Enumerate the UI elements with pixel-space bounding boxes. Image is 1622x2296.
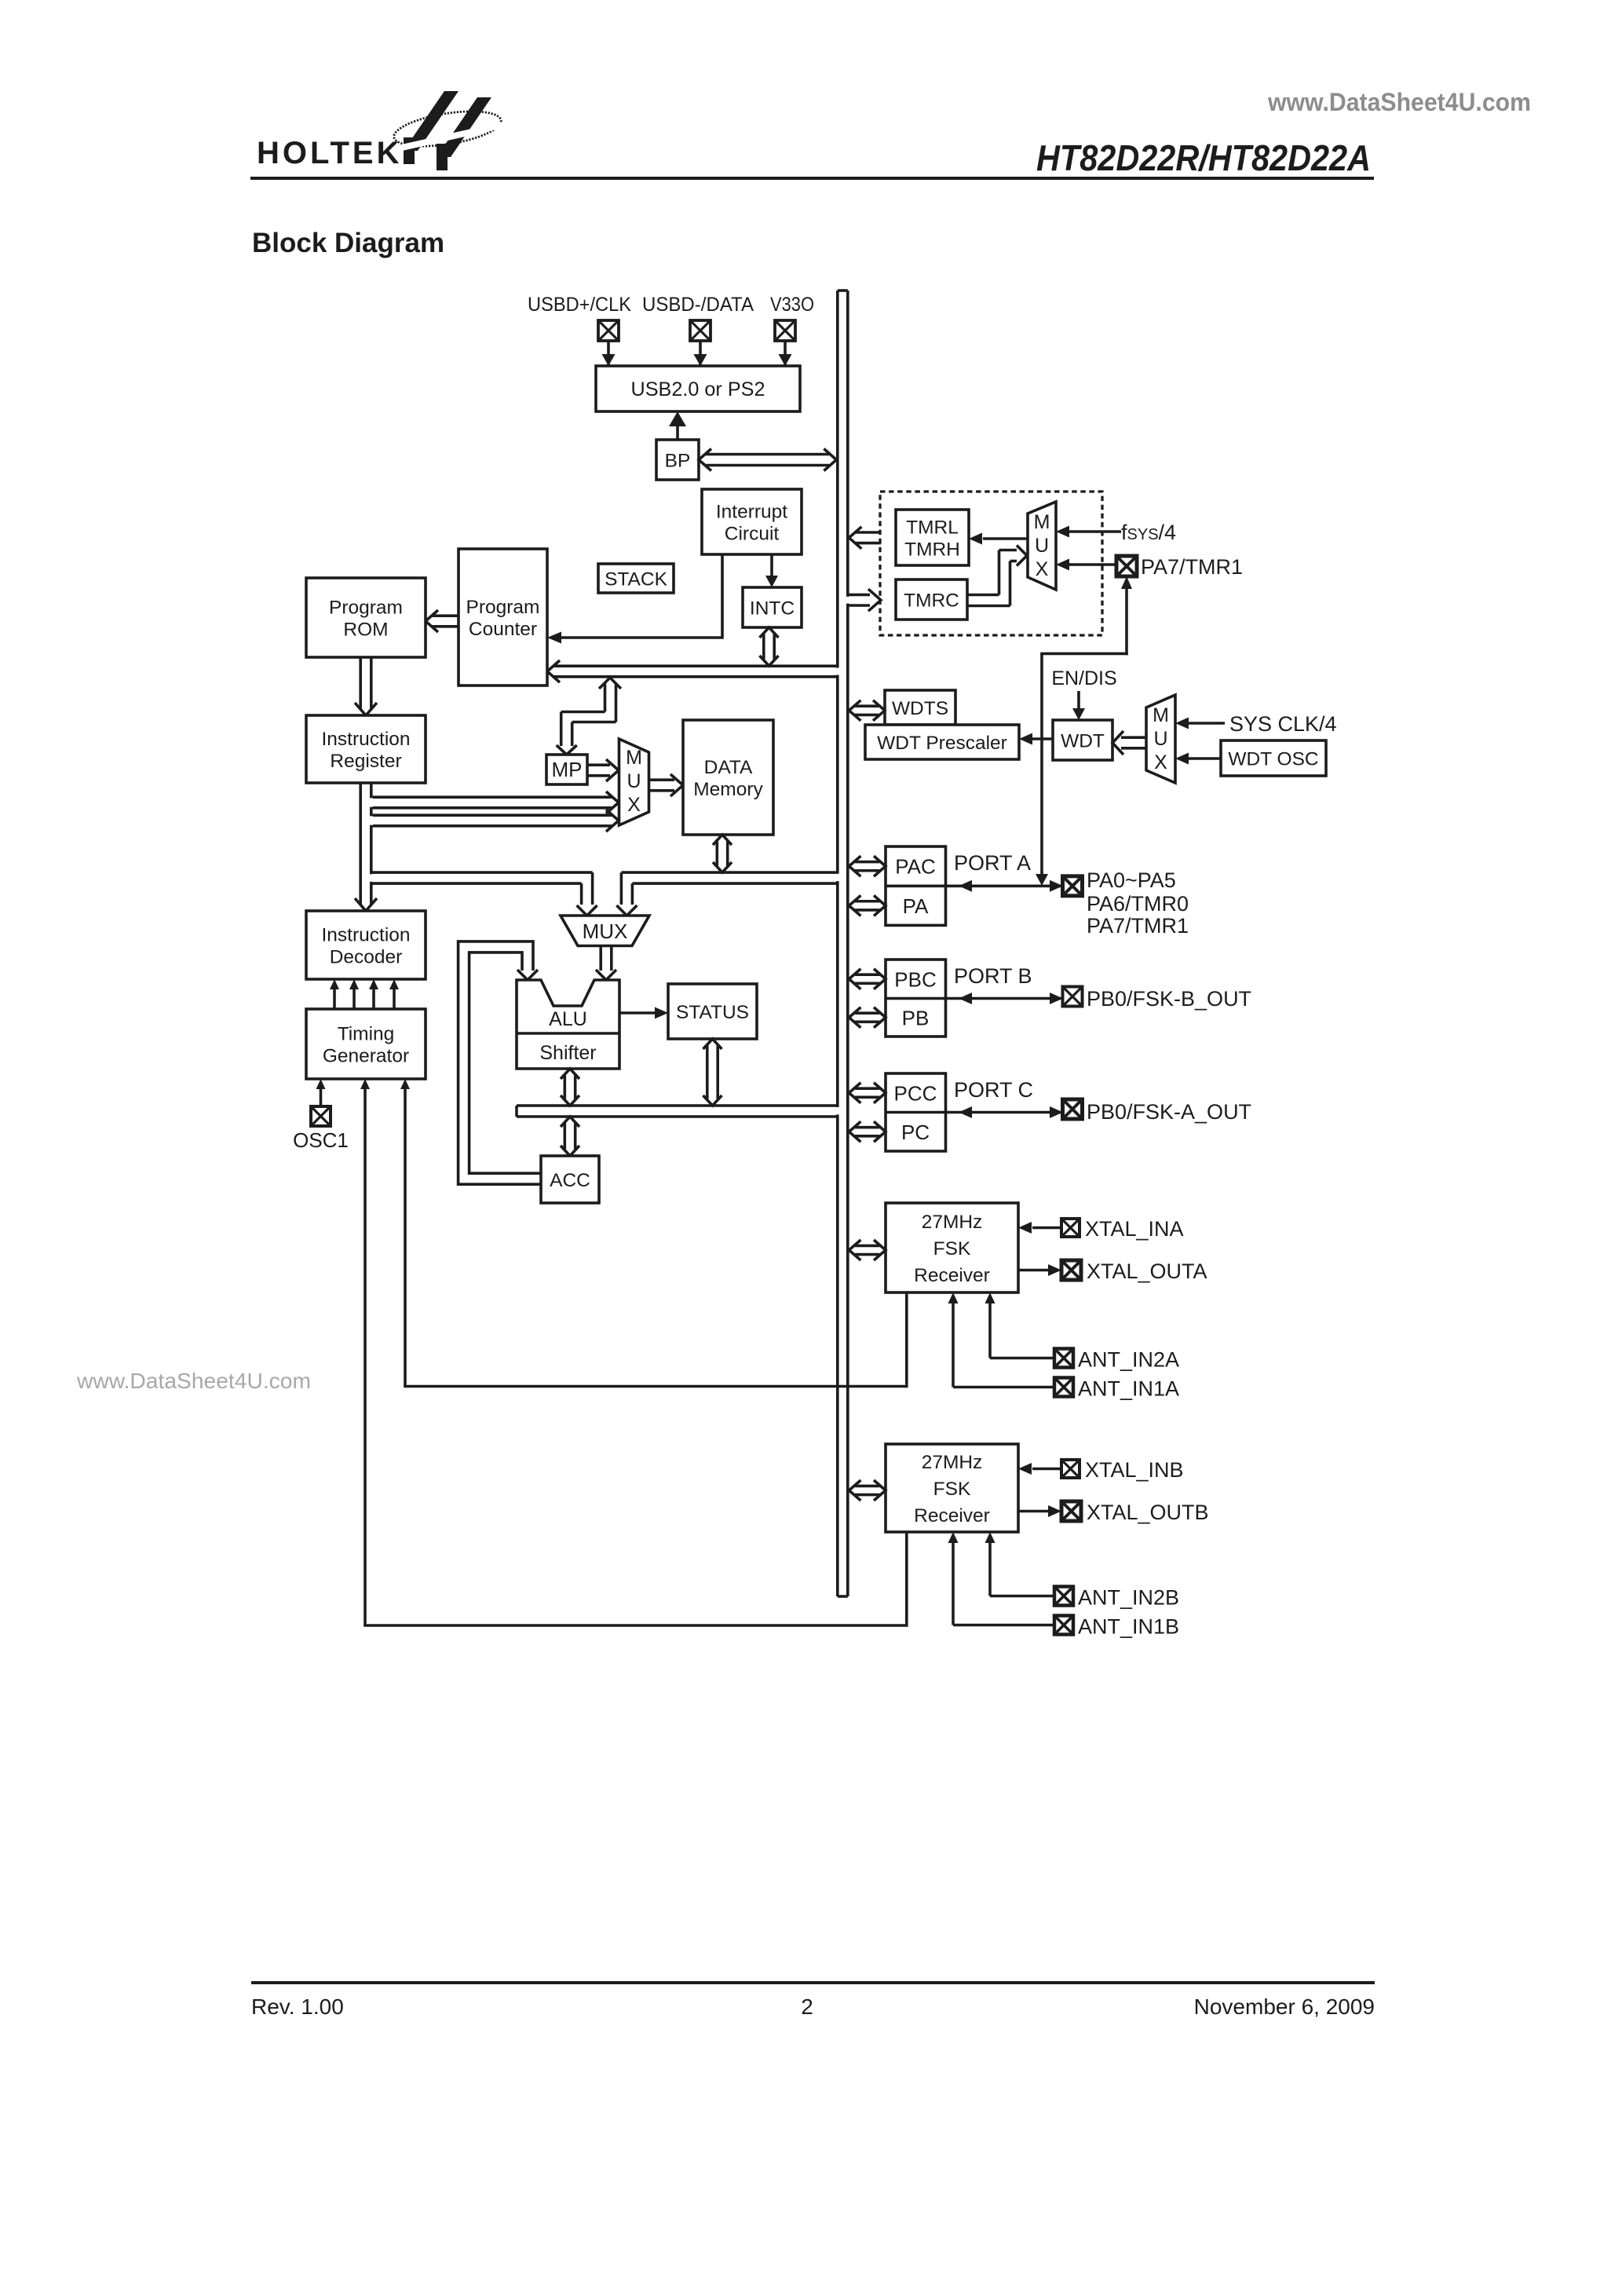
svg-text:WDT: WDT [1061,730,1105,751]
svg-text:XTAL_INB: XTAL_INB [1085,1458,1184,1482]
wire FSK-B to Timing Generator [363,1088,367,1625]
svg-text:WDT OSC: WDT OSC [1228,748,1318,770]
svg-text:U: U [1035,535,1049,557]
svg-text:PB0/FSK-B_OUT: PB0/FSK-B_OUT [1087,987,1251,1011]
gap IR shaft c [370,874,373,882]
arrow Data Memory to RAM path [713,835,732,845]
arrow into Instruction Decoder [355,898,377,911]
svg-text:PORT C: PORT C [954,1078,1033,1102]
svg-text:XTAL_OUTA: XTAL_OUTA [1087,1260,1207,1283]
svg-text:USBD-/DATA: USBD-/DATA [642,294,754,316]
svg-text:STATUS: STATUS [676,1002,749,1023]
svg-text:November 6, 2009: November 6, 2009 [1194,1994,1375,2019]
block STACK [598,564,674,593]
svg-text:M: M [1034,511,1050,533]
wire Interrupt Circuit to INTC [770,554,773,581]
pin XTAL_OUTB [1061,1501,1081,1521]
wire WDT OSC to MUX4 [1188,757,1221,760]
wire ANT_IN2B to 27MHz FSK Receiver B [990,1595,1054,1598]
arrow data bar to ACC [561,1117,579,1127]
block BP [656,440,699,480]
arrow Program Counter to Program ROM [431,614,458,617]
svg-text:DATA: DATA [704,757,753,778]
svg-text:MP: MP [552,758,583,781]
svg-text:27MHz: 27MHz [922,1212,983,1233]
path IR side to MUX2 feed [371,871,592,874]
wire ALU to STATUS [619,1011,662,1015]
svg-text:PORT A: PORT A [954,851,1031,875]
svg-text:Shifter: Shifter [539,1042,596,1064]
svg-text:TMRC: TMRC [904,590,959,611]
pin ANT_IN2A [1054,1349,1073,1368]
svg-text:PORT B: PORT B [954,964,1032,988]
path bus PC-line to MP [599,678,621,689]
svg-text:Memory: Memory [693,779,763,800]
wire BP to USB block [676,424,679,440]
dashed timer box [880,492,1102,635]
block PCC/PC [886,1073,946,1151]
block 27MHz FSK Receiver A [886,1203,1018,1292]
svg-text:Counter: Counter [469,619,537,640]
block Instruction Decoder [306,911,426,979]
Holtek logo ellipse [392,105,503,152]
wire Timing Generator to Instruction Decoder 2 [353,988,356,1009]
svg-text:EN/DIS: EN/DIS [1051,667,1116,689]
svg-text:MUX: MUX [583,919,628,943]
bus arrow BP [699,449,711,471]
wire SYS CLK/4 to MUX4 [1188,722,1225,725]
arrow MP to MUX [587,763,610,766]
pin USBD-/DATA [690,320,711,341]
svg-text:PCC: PCC [894,1081,937,1105]
svg-text:ACC: ACC [550,1170,590,1191]
svg-text:Generator: Generator [323,1045,409,1066]
svg-text:Register: Register [330,751,401,772]
Holtek logo slash [388,122,513,151]
wire OSC1 to Timing Generator [320,1088,323,1106]
svg-text:PA: PA [903,894,929,918]
wire ANT_IN2A to 27MHz FSK Receiver A [990,1357,1054,1360]
wire PB to pin [946,997,1063,1000]
svg-text:FSK: FSK [933,1238,971,1260]
svg-text:XTAL_OUTB: XTAL_OUTB [1087,1501,1209,1524]
mux MUX2 (ALU input) [561,916,649,946]
wire WDT to WDT Prescaler [1031,737,1053,740]
svg-text:ALU: ALU [549,1008,587,1030]
bus arrow 27MHz FSK Receiver A [849,1240,860,1260]
svg-text:U: U [627,770,641,792]
mux MUX3 (timer) [1028,502,1056,590]
bus arrow 27MHz FSK Receiver B [849,1480,860,1501]
svg-text:BP: BP [665,450,691,471]
svg-text:USBD+/CLK: USBD+/CLK [528,294,631,316]
block DATA Memory [683,720,773,835]
svg-text:STACK: STACK [605,569,668,590]
svg-text:Receiver: Receiver [914,1505,990,1526]
svg-text:USB2.0 or PS2: USB2.0 or PS2 [631,378,765,400]
svg-text:Interrupt: Interrupt [716,501,787,522]
svg-text:Instruction: Instruction [321,729,410,750]
pin ANT_IN1A [1054,1378,1073,1397]
svg-text:PBC: PBC [894,967,936,991]
svg-text:Instruction: Instruction [321,924,410,945]
svg-text:Timing: Timing [338,1023,395,1044]
block ACC [541,1156,599,1203]
wire V33O to USB block [784,341,787,366]
pin V33O [775,320,795,341]
svg-text:PB0/FSK-A_OUT: PB0/FSK-A_OUT [1087,1100,1251,1124]
svg-text:SYS CLK/4: SYS CLK/4 [1229,712,1337,736]
svg-text:PA6/TMR0: PA6/TMR0 [1087,892,1189,916]
wire 27MHz FSK Receiver B to XTAL_OUTB [1018,1510,1049,1513]
pin XTAL_INA [1061,1219,1080,1237]
block Instruction Register [306,715,426,783]
block 27MHz FSK Receiver B [886,1444,1018,1532]
wire MUX3 to TMRL [983,537,1028,540]
svg-text:www.DataSheet4U.com: www.DataSheet4U.com [76,1369,311,1393]
wire fsys/4 to MUX3 [1069,530,1121,533]
wire XTAL_INA to 27MHz FSK Receiver A [1032,1227,1061,1230]
bus arrow PC [849,1121,860,1142]
Holtek logo bolt 1 [404,91,458,151]
arrow STATUS to data bar [703,1039,722,1049]
wire 27MHz FSK Receiver A to XTAL_OUTA [1018,1269,1049,1272]
gap IR shaft a [370,798,373,806]
block WDT [1053,720,1112,760]
svg-text:V33O: V33O [770,294,814,316]
path IR to MP MUX input 1 [371,795,612,799]
arrow Shifter to data bar [561,1069,579,1079]
mux MUX1 (MP/IR) [619,739,649,825]
svg-text:PB: PB [902,1006,930,1029]
path TMRC to MUX3 [967,594,999,597]
bus arrow PCC [849,1083,860,1103]
arrow MUX2 to ALU [599,946,602,971]
bus arrow PA [849,895,860,916]
arrow Program ROM to Instruction Register [359,657,362,709]
wire ANT_IN1A to 27MHz FSK Receiver A [953,1386,1054,1389]
block INTC [743,587,802,627]
svg-text:ROM: ROM [343,619,388,640]
block TMRL/TMRH [896,510,969,565]
data bar [517,1104,838,1107]
svg-text:X: X [1036,558,1049,580]
bus arrow WDTS [849,700,860,721]
pin ANT_IN1B [1054,1616,1073,1635]
path IR to MP MUX input 2 [371,813,612,817]
svg-text:M: M [1153,704,1169,726]
svg-text:PA7/TMR1: PA7/TMR1 [1141,555,1243,579]
svg-text:XTAL_INA: XTAL_INA [1085,1217,1184,1241]
svg-text:2: 2 [801,1994,813,2019]
shaft Instruction Register down [359,783,362,905]
svg-text:PC: PC [901,1121,930,1144]
svg-text:WDT Prescaler: WDT Prescaler [877,733,1007,754]
wire XTAL_INB to 27MHz FSK Receiver B [1032,1468,1061,1471]
arrow MUX4 to WDT [1121,736,1146,739]
pin ANT_IN2B [1054,1587,1073,1606]
bus opening IR/RAM path [836,874,839,881]
Holtek logo bolt 2 [437,97,491,157]
bus arrow PBC [849,969,860,989]
svg-text:www.DataSheet4U.com: www.DataSheet4U.com [1267,88,1531,116]
block WDT OSC [1221,740,1326,776]
svg-text:ANT_IN1A: ANT_IN1A [1078,1377,1179,1401]
svg-text:ANT_IN1B: ANT_IN1B [1078,1615,1179,1639]
wire Timing Generator to Instruction Decoder 3 [372,988,375,1009]
mux MUX4 (WDT clock) [1146,695,1175,783]
svg-text:Block Diagram: Block Diagram [252,228,444,258]
wire Interrupt Circuit to Program Counter [559,554,722,638]
svg-text:ANT_IN2B: ANT_IN2B [1078,1586,1179,1610]
block WDTS [885,690,955,725]
footer rule [251,1981,1375,1984]
pin USBD+/CLK [598,320,619,341]
loop ACC to ALU [458,941,541,1184]
wire EN/DIS to WDT [1077,691,1080,709]
wire USBD-/DATA to USB block [699,341,702,366]
block Program Counter [458,549,547,686]
svg-text:ANT_IN2A: ANT_IN2A [1078,1348,1179,1372]
block Interrupt Circuit [702,489,802,554]
wire Timing Generator to Instruction Decoder 4 [393,988,396,1009]
wire Timing Generator to Instruction Decoder 1 [333,988,336,1009]
svg-text:Decoder: Decoder [330,946,403,967]
bus arrow PAC [849,856,860,876]
pin PA7/TMR1 top [1116,556,1137,576]
wire USBD+/CLK to USB block [607,341,610,366]
svg-text:X: X [1154,751,1167,773]
pin XTAL_INB [1061,1460,1080,1478]
svg-text:Rev. 1.00: Rev. 1.00 [251,1994,344,2019]
bus opening PC path [836,668,839,675]
svg-text:HT82D22R/HT82D22A: HT82D22R/HT82D22A [1036,137,1371,178]
bus arrow timer out [855,531,881,534]
svg-text:WDTS: WDTS [892,698,948,719]
block TMRC [896,579,967,620]
wire PA to pin [946,885,1063,888]
header rule [250,177,1374,180]
pin PB0/FSK-A_OUT [1063,1099,1083,1119]
block WDT Prescaler [865,725,1019,759]
wire FSK-A to Timing Generator [404,1088,407,1387]
block Program ROM [306,578,426,657]
svg-text:PAC: PAC [895,855,936,879]
pin XTAL_OUTA [1061,1260,1081,1280]
svg-text:Program: Program [466,597,540,618]
block PBC/PB [886,960,946,1036]
svg-text:PA0~PA5: PA0~PA5 [1087,868,1176,892]
svg-text:INTC: INTC [750,598,795,619]
block PAC/PA [886,846,946,925]
block MP [546,755,587,784]
svg-text:OSC1: OSC1 [293,1128,349,1152]
bus arrow PB [849,1007,860,1028]
wire PC to pin [946,1111,1063,1114]
svg-text:Receiver: Receiver [914,1265,990,1286]
svg-text:U: U [1153,728,1167,750]
pin PB0/FSK-B_OUT [1063,987,1083,1007]
wire PA7 pin to MUX3 [1069,563,1116,566]
arrow MUX1 to Data Memory [649,778,674,781]
svg-text:HOLTEK: HOLTEK [257,136,402,170]
block Timing Generator [306,1009,426,1079]
wire PA7 pin to PORT A line [1121,576,1132,589]
pin PA0~PA5 [1063,876,1083,896]
path bus to MUX2 feed [621,871,837,874]
bus arrow timer in [848,594,870,597]
block ALU/Shifter [517,980,619,1069]
block USB2.0 or PS2 [596,366,800,411]
svg-text:X: X [627,794,641,816]
bus opening TMRC arrow [846,597,849,604]
block STATUS [668,984,757,1039]
svg-text:M: M [626,747,642,769]
arrow INTC to bus path [760,627,779,638]
pin OSC1 [311,1106,331,1126]
svg-text:Program: Program [329,597,403,618]
svg-text:27MHz: 27MHz [922,1452,983,1473]
svg-text:PA7/TMR1: PA7/TMR1 [1087,914,1189,938]
bus path to Program Counter [553,664,838,667]
wire ANT_IN1B to 27MHz FSK Receiver B [953,1624,1054,1627]
gap IR shaft b [370,816,373,824]
bus opening ALU bar [836,1107,839,1114]
svg-text:Circuit: Circuit [725,523,780,544]
svg-text:FSK: FSK [933,1479,971,1500]
system bus [836,291,839,1596]
svg-text:TMRL: TMRL [906,517,959,538]
svg-text:TMRH: TMRH [904,539,960,560]
